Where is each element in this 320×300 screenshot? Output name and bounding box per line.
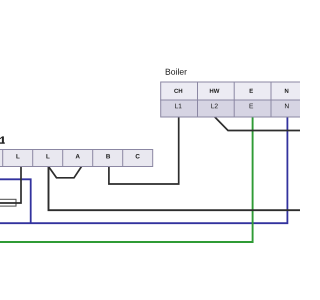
boiler label [166,68,187,74]
wire: green earth (boiler E down and across to left edge) [0,117,253,242]
terminal B label [106,154,110,158]
boiler terminal E (top) label [250,89,253,93]
wire: terminal B to boiler L1 [109,117,179,184]
wire: blue neutral main run (boiler N down and across to left edge) [0,117,287,223]
terminal strip (left, partially cut off) [0,150,153,167]
terminal C label [136,154,140,158]
boiler terminal N (top) label [285,89,289,93]
boiler terminal CH label [174,89,182,93]
wire: boiler L2 across to right edge [215,117,300,131]
boiler terminal E (bottom) label [250,104,254,109]
boiler terminal N (bottom) label [285,104,289,109]
boiler terminal block [161,82,311,117]
connector block at left edge [0,199,16,206]
wire: blue neutral upper branch to left edge [0,179,31,223]
terminal L (1) label [16,154,19,158]
wire: terminal L2 down and across to right edge [49,167,301,211]
boiler terminal L2 label [211,104,217,109]
boiler terminal L1 label [175,104,181,109]
terminal L (2) label [46,154,49,158]
boiler terminal HW label [210,89,220,93]
terminal A label [76,154,80,158]
label 1 (cut off at left edge) [0,136,5,143]
wire: terminal L1 down and out left edge [0,167,21,204]
wire: link terminal L2 to terminal A [49,167,82,178]
